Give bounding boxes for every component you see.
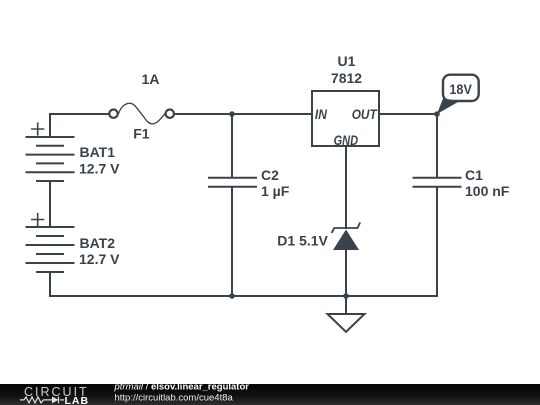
svg-text:http://circuitlab.com/cue4t8a: http://circuitlab.com/cue4t8a bbox=[115, 392, 234, 403]
svg-text:OUT: OUT bbox=[352, 106, 378, 122]
svg-text:ptrmail / elsov.linear_regulat: ptrmail / elsov.linear_regulator bbox=[114, 382, 250, 393]
svg-text:D1 5.1V: D1 5.1V bbox=[277, 233, 328, 249]
svg-text:C2: C2 bbox=[261, 167, 279, 183]
svg-text:12.7 V: 12.7 V bbox=[79, 161, 120, 177]
svg-text:LAB: LAB bbox=[65, 395, 90, 405]
svg-text:C1: C1 bbox=[465, 167, 483, 183]
svg-text:7812: 7812 bbox=[331, 70, 362, 86]
svg-text:12.7 V: 12.7 V bbox=[79, 251, 120, 267]
svg-text:18V: 18V bbox=[449, 82, 472, 97]
svg-text:U1: U1 bbox=[338, 53, 356, 69]
svg-text:IN: IN bbox=[315, 106, 328, 122]
svg-text:BAT1: BAT1 bbox=[80, 144, 116, 160]
svg-text:BAT2: BAT2 bbox=[80, 235, 116, 251]
svg-text:GND: GND bbox=[334, 132, 359, 148]
svg-text:1 µF: 1 µF bbox=[261, 183, 290, 199]
svg-text:F1: F1 bbox=[133, 126, 150, 142]
svg-text:100 nF: 100 nF bbox=[465, 183, 510, 199]
svg-text:1A: 1A bbox=[142, 71, 160, 87]
